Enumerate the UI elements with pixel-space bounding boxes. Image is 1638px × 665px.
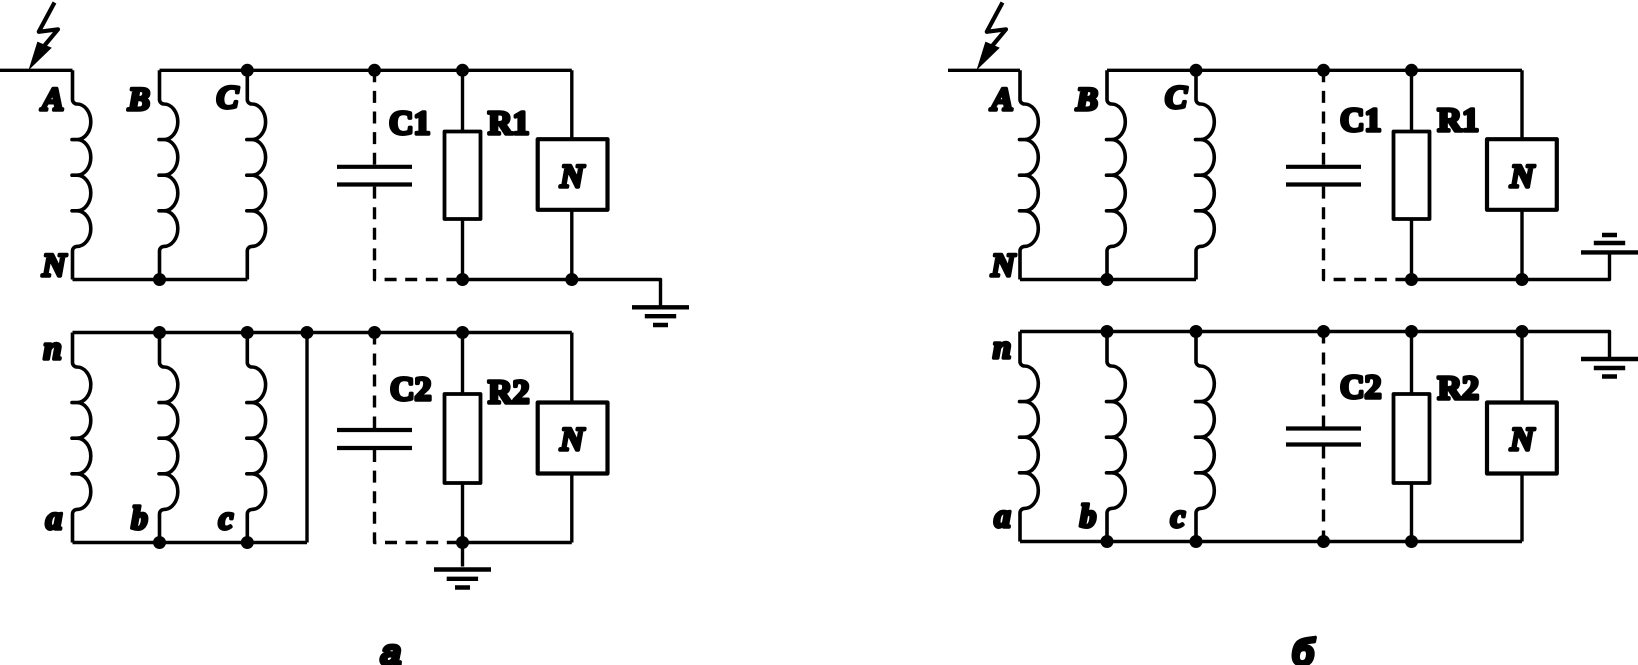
wire: R1 bottom lead: [461, 219, 464, 280]
inductor winding b: [1107, 332, 1126, 542]
resistor R1 body: [1394, 132, 1430, 220]
wire: ground rail: [463, 280, 661, 306]
inductor winding c: [1196, 332, 1215, 542]
junction node: device N bottom: [1516, 273, 1529, 286]
wire: device N bottom lead: [570, 210, 573, 280]
inductor winding C: [247, 70, 266, 279]
capacitor C1 top dashed lead: [373, 70, 376, 164]
capacitor C2 bottom dashed lead: [375, 450, 463, 543]
svg-text:а: а: [381, 632, 402, 665]
capacitor C1 bottom dashed lead: [375, 187, 463, 280]
inductor winding a: [72, 333, 91, 543]
wire: incoming phase A line: [0, 69, 73, 72]
svg-text:N: N: [559, 159, 585, 195]
inductor winding B: [1107, 70, 1126, 279]
wire: top bus n rail: [1020, 332, 1610, 358]
wire: device N bottom lead: [570, 474, 573, 543]
wire: device N top lead: [1520, 70, 1523, 139]
wire: R2 top lead: [1410, 332, 1413, 395]
junction node: device N bottom: [565, 273, 578, 286]
wire: top bus n rail: [73, 331, 572, 334]
junction node: winding c bottom: [241, 536, 254, 549]
wire: top bus B-C-C1-R1-N: [160, 69, 572, 72]
svg-text:a: a: [46, 501, 63, 537]
svg-text:N: N: [1509, 159, 1535, 195]
inductor winding a: [1020, 332, 1039, 542]
inductor winding B: [159, 70, 178, 279]
svg-text:c: c: [1171, 499, 1186, 535]
wire: winding bottom rail a-b-c: [73, 541, 308, 544]
svg-text:n: n: [43, 331, 61, 367]
junction node: winding B bottom: [1101, 273, 1114, 286]
wire: top bus B-C-C1-R1-N: [1107, 69, 1522, 72]
wire: device N top lead: [1520, 332, 1523, 403]
inductor winding C: [1196, 70, 1215, 279]
capacitor C1 bottom dashed lead: [1324, 187, 1412, 280]
junction node: R1 top: [456, 64, 469, 77]
ground symbol: [632, 307, 689, 325]
capacitor C2 plates: [337, 430, 412, 448]
device box N (relay, LV): [1487, 403, 1557, 474]
svg-text:N: N: [41, 248, 67, 284]
wire: R1 top lead: [461, 70, 464, 131]
wire: winding neutral rail: [1020, 278, 1196, 281]
inductor winding A: [1020, 70, 1039, 279]
wire: ground stem: [461, 543, 464, 567]
wire: bottom rail: [1020, 540, 1522, 543]
junction node: C1 top: [368, 64, 381, 77]
svg-text:R1: R1: [1438, 102, 1480, 139]
wire: device N top lead: [570, 70, 573, 139]
junction node: device N top: [1516, 325, 1529, 338]
wire: vertical link rail: [305, 333, 308, 543]
svg-text:R1: R1: [488, 105, 530, 142]
lightning strike symbol: [29, 3, 59, 71]
svg-text:A: A: [40, 82, 64, 118]
inductor winding b: [159, 333, 178, 543]
junction node: R1 top: [1405, 64, 1418, 77]
junction node: winding c bottom: [1190, 535, 1203, 548]
wire: R1 top lead: [1410, 70, 1413, 131]
svg-text:C1: C1: [389, 105, 431, 142]
junction node: winding B bottom: [153, 273, 166, 286]
svg-text:a: a: [994, 499, 1011, 535]
junction node: R2 bottom: [1405, 535, 1418, 548]
capacitor C2 bottom dashed lead: [1322, 447, 1325, 542]
wire: R2 bottom lead: [1410, 483, 1413, 542]
svg-text:c: c: [219, 501, 234, 537]
svg-text:C: C: [1165, 80, 1188, 116]
ground symbol (flipped up): [1581, 235, 1638, 252]
junction node: C2 bottom: [1317, 535, 1330, 548]
capacitor C2 plates: [1286, 429, 1361, 445]
wire: winding neutral rail: [73, 278, 248, 281]
junction node: C1 top: [1317, 64, 1330, 77]
capacitor C2 top dashed lead: [373, 333, 376, 429]
wire: R2 bottom lead: [461, 483, 464, 543]
device box N (relay): [538, 139, 608, 210]
capacitor C1 plates: [337, 167, 412, 185]
svg-text:C: C: [216, 80, 239, 116]
wire: ground rail (to raised ground): [1412, 255, 1610, 280]
svg-text:N: N: [1509, 422, 1535, 458]
junction node: R1 bottom: [456, 273, 469, 286]
svg-text:R2: R2: [488, 374, 530, 411]
lightning strike symbol: [977, 3, 1007, 71]
svg-text:C2: C2: [1340, 369, 1382, 406]
capacitor C2 top dashed lead: [1322, 332, 1325, 427]
junction node: winding b bottom: [1101, 535, 1114, 548]
junction node: R2 top: [1405, 325, 1418, 338]
junction node: winding b bottom: [153, 536, 166, 549]
svg-text:A: A: [989, 82, 1013, 118]
svg-text:R2: R2: [1438, 370, 1480, 407]
device box N (relay): [1487, 139, 1557, 210]
junction node: R1 bottom: [1405, 273, 1418, 286]
ground symbol (top right): [1581, 359, 1638, 377]
svg-text:N: N: [990, 248, 1016, 284]
resistor R1 body: [445, 132, 481, 220]
junction node: winding c top: [1190, 325, 1203, 338]
wire: device N bottom lead: [1520, 210, 1523, 280]
inductor winding A: [72, 70, 91, 279]
junction node: winding b top: [1101, 325, 1114, 338]
junction node: R2 bottom: [456, 536, 469, 549]
junction node: C2 top: [368, 326, 381, 339]
junction node: C2 top: [1317, 325, 1330, 338]
capacitor C1 top dashed lead: [1322, 70, 1325, 164]
wire: R2 top lead: [461, 333, 464, 395]
inductor winding c: [247, 333, 266, 543]
junction node: winding C top: [241, 64, 254, 77]
ground symbol (LV): [434, 570, 491, 588]
resistor R2 body: [445, 394, 481, 483]
wire: incoming phase A line: [948, 69, 1020, 72]
svg-text:N: N: [559, 422, 585, 458]
junction node: winding c top: [241, 326, 254, 339]
capacitor C1 plates: [1286, 167, 1361, 185]
junction node: winding C top: [1190, 64, 1203, 77]
svg-text:B: B: [127, 82, 150, 118]
junction node: R2 top: [456, 326, 469, 339]
wire: R1 bottom lead: [1410, 219, 1413, 280]
wire: device N bottom lead: [1520, 474, 1523, 542]
svg-text:n: n: [993, 330, 1011, 366]
wire: bottom rail R2 to N: [463, 541, 572, 544]
svg-text:C1: C1: [1340, 102, 1382, 139]
svg-text:b: b: [131, 501, 148, 537]
device box N (relay, LV): [538, 403, 608, 474]
svg-text:b: b: [1080, 499, 1097, 535]
wire: device N top lead: [570, 333, 573, 403]
resistor R2 body: [1394, 394, 1430, 483]
junction node: link top: [301, 326, 314, 339]
svg-text:б: б: [1292, 632, 1316, 665]
junction node: winding b top: [153, 326, 166, 339]
svg-text:C2: C2: [390, 371, 432, 408]
svg-text:B: B: [1075, 82, 1098, 118]
